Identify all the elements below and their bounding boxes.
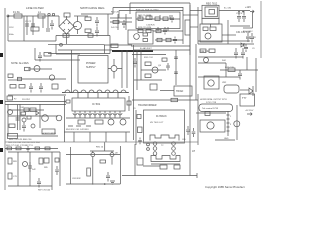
capacitor C18 (37, 178, 41, 188)
wire y104.5 (5, 104, 66, 106)
wire ctl bottom (131, 45, 190, 47)
regulator box U3 (200, 24, 222, 42)
terminal in (7, 15, 9, 17)
terminal circle a (48, 13, 50, 15)
capacitor C20 (50, 20, 54, 30)
transistor Q9 (207, 122, 214, 129)
wire v x247 r (246, 57, 248, 70)
wire v x119 (118, 11, 120, 19)
wire y140 rl (215, 139, 235, 141)
junction dots top (239, 11, 243, 13)
wire ctl row1 (136, 18, 180, 20)
resistor R12 (156, 29, 161, 32)
wire bus y132 (64, 131, 130, 133)
capacitor C1 (26, 16, 28, 35)
svg-text:SWITCHING REG: SWITCHING REG (80, 6, 105, 10)
wire ctl right v (182, 7, 184, 44)
wire v x127 (126, 50, 128, 88)
regulator lower module (202, 18, 219, 24)
svg-text:T2: T2 (161, 145, 164, 147)
IC U4 box (72, 98, 125, 111)
wire q13 row (141, 69, 166, 71)
block box (200, 120, 225, 132)
capacitor C21 (122, 20, 126, 28)
wire v x120.4 (119, 146, 121, 184)
svg-text:HV T401 LOT: HV T401 LOT (150, 122, 164, 124)
transistor Q8 (56, 115, 62, 121)
wire Q1 emitter (77, 30, 79, 35)
resistor R15 (203, 27, 208, 31)
wire AC bus top (8, 15, 59, 17)
edge mark 2 (0, 100, 3, 104)
capacitor C14 (38, 52, 42, 62)
wire y7.5 (113, 7, 183, 9)
resistor R4 (85, 29, 91, 33)
wire bus y95 (8, 94, 66, 96)
wire bridge top (66, 16, 68, 19)
wire reg gnd (230, 25, 250, 27)
ground sym (110, 181, 115, 184)
pin circle R3 (172, 152, 176, 156)
wire q5 row (28, 68, 52, 70)
wire y164 (151, 163, 180, 165)
svg-text:R83: R83 (13, 161, 18, 163)
capacitor C15 (29, 83, 33, 93)
wire bridge left (58, 16, 60, 27)
transistor Q7 (42, 115, 49, 122)
capacitor C5 (95, 27, 99, 37)
wire y35 r (222, 34, 236, 36)
wire y50 mr (134, 49, 191, 51)
IC top stubs (78, 93, 118, 98)
transistor Q14 (204, 58, 209, 63)
regulator box U2 core (209, 10, 215, 15)
wire q6 (108, 59, 122, 79)
wire v x256 (255, 58, 257, 92)
wire v x137 (136, 50, 138, 90)
resistor R12c (146, 29, 151, 32)
resistor R23 (30, 108, 36, 112)
resistor R32 (174, 165, 180, 169)
wire y110 l (8, 109, 44, 111)
resistor R6 (138, 17, 143, 21)
ic drop c (105, 132, 107, 142)
svg-text:D51 R52: D51 R52 (22, 99, 31, 101)
small box ml (52, 84, 58, 89)
wire ctl row3 (155, 39, 183, 41)
wire v x104.7 (104, 142, 106, 151)
svg-text:R51 R52 C41 C42 R53: R51 R52 C41 C42 R53 (66, 129, 89, 131)
capacitor C22 (133, 58, 137, 68)
small box bm (137, 158, 143, 165)
transistor Q6 (111, 66, 117, 72)
svg-text:R85: R85 (44, 167, 49, 169)
fuse F1 (14, 14, 22, 18)
wire y41 left (8, 40, 24, 42)
cap C1 plates (25, 24, 35, 26)
wire +12V bus (219, 10, 250, 12)
svg-text:Q5: Q5 (158, 65, 162, 67)
wire v x113 (112, 8, 114, 15)
wire mid bus2 (56, 35, 110, 37)
pot VR2 (120, 119, 126, 125)
wire v x141 (140, 50, 142, 80)
wire y136 l (8, 135, 58, 137)
wire v x197 end (196, 173, 198, 178)
svg-text:60Hz: 60Hz (9, 34, 14, 36)
wire y101.5 (5, 101, 66, 103)
svg-text:L1: L1 (38, 11, 41, 14)
capacitor C6 (170, 15, 174, 23)
resistor R2 (31, 27, 39, 31)
capacitor C17 (22, 122, 26, 132)
transformer T2 circle (8, 110, 13, 115)
svg-text:B+ 130: B+ 130 (224, 8, 232, 10)
resistor R29 (100, 160, 106, 163)
capacitor mr extra (166, 63, 170, 70)
diode D2 (241, 43, 244, 47)
transistor Q4 (205, 33, 211, 39)
wire y154.6 (66, 154, 120, 156)
wire Q1 collector (77, 16, 79, 22)
wire y148.5 join (5, 148, 58, 150)
wire node to control (110, 21, 132, 23)
comp in snubber (143, 33, 148, 36)
capacitor C19 (106, 172, 110, 182)
comp left col t1 (137, 115, 141, 119)
comp row a (7, 147, 12, 150)
capacitor C24 (246, 33, 250, 42)
transistor Q5 (34, 66, 40, 72)
wire v x190b (189, 144, 191, 176)
wire mid-left bus y60 (35, 59, 80, 61)
box TTY (240, 94, 255, 106)
comp beside ic (127, 101, 131, 105)
svg-text:IC 501: IC 501 (92, 102, 101, 106)
terminal +12V arrow (250, 10, 254, 13)
resistor R31 (160, 165, 167, 169)
wire ctl stubs (140, 15, 170, 31)
svg-text:C8: C8 (253, 37, 256, 39)
transistor Q18 (22, 118, 26, 122)
wire v x176 (175, 50, 177, 85)
svg-text:C1 C2: C1 C2 (25, 21, 32, 23)
wire ic base (62, 92, 128, 94)
svg-text:D42: D42 (32, 169, 37, 171)
caps right of T1 b (192, 128, 196, 137)
wire v x122 (121, 50, 123, 88)
IC U4 pins (75, 111, 120, 116)
resistor R18 (25, 67, 31, 70)
resistor R3 (85, 17, 91, 21)
resistor R25 (138, 127, 143, 133)
svg-text:TRIAD: TRIAD (176, 90, 183, 93)
wire v x228 (227, 20, 229, 44)
wide box bl (8, 134, 18, 139)
wire v x133 mid (133, 45, 135, 140)
junction ball (60, 43, 63, 46)
svg-text:GND: GND (224, 138, 229, 140)
resistor R33 (113, 21, 119, 24)
wire v x71.5 (71, 50, 73, 93)
svg-text:3: 3 (230, 124, 232, 126)
junction dot (104, 183, 106, 185)
wire y28 right (243, 27, 253, 29)
svg-text:C81 R92: C81 R92 (72, 178, 81, 180)
comp left of ic (66, 100, 70, 103)
transformer box T1 (144, 110, 185, 143)
resistor R36 (209, 49, 215, 53)
comp on y100 (171, 98, 178, 101)
wire bridge right (74, 26, 77, 28)
resistor R40 (157, 38, 162, 41)
wire v x226 r (225, 63, 227, 77)
ic drop b (89, 132, 91, 142)
comp bl6 (55, 158, 59, 162)
wire v x237 (236, 105, 238, 140)
wire bus y79 (17, 78, 66, 80)
comp lb1 (27, 116, 31, 119)
wire AC bus top right (74, 15, 88, 17)
small box r2 (205, 112, 210, 116)
wire v x18 (17, 152, 19, 186)
wire right bus y57 (198, 56, 243, 58)
transistor Q13 (152, 67, 158, 73)
wire q drops (93, 157, 112, 185)
svg-text:HORIZONTAL OUTPUT R731: HORIZONTAL OUTPUT R731 (200, 98, 228, 101)
comp row e (45, 147, 50, 150)
resistor R12b (138, 29, 143, 32)
caps right of T1 (186, 126, 190, 135)
wire y44 r (198, 43, 254, 45)
svg-text:R42 C33: R42 C33 (225, 67, 234, 69)
resistor R20 (19, 85, 25, 89)
wire y90 r (240, 89, 249, 91)
border frame right (260, 1, 262, 58)
wire y142 bus (5, 141, 198, 143)
wire vertical node (107, 14, 109, 36)
capacitor C23 (28, 162, 32, 172)
resistor R9 (163, 17, 168, 21)
capacitor C16 (39, 83, 43, 93)
wire v x190 long (189, 3, 191, 144)
regulator box U2 inner (205, 7, 217, 17)
triad box (174, 86, 192, 96)
wire top border (130, 2, 190, 4)
wire v x135 bm (134, 144, 136, 176)
capacitor C10 (250, 33, 254, 43)
edge mark 3 (0, 148, 3, 152)
wire y77 r (198, 76, 240, 78)
wire y53.5 (48, 53, 110, 55)
wire v x129 (128, 96, 130, 111)
ic drop d (125, 132, 127, 142)
wire v x70 (70, 147, 72, 184)
wire to reg2 (190, 26, 198, 28)
wire y44.7 (48, 44, 105, 46)
wire y80 mr (134, 79, 162, 81)
transistor Q15 (208, 80, 214, 86)
capacitor C4 (95, 17, 99, 27)
capacitor C13 (238, 70, 242, 80)
wire y10.5 (119, 10, 183, 12)
wire y100 mid (132, 99, 198, 101)
control block box (136, 12, 180, 29)
wire v x24 (23, 16, 25, 41)
wire reg in (190, 10, 202, 12)
capacitor C12 (241, 48, 245, 59)
svg-text:R87 C75 D44: R87 C75 D44 (38, 190, 51, 192)
wire v x17.5 (17, 105, 19, 131)
small box mr (150, 84, 157, 90)
svg-text:Tek control 5733: Tek control 5733 (202, 107, 219, 110)
wire v x126 (125, 14, 127, 30)
wire y54 ml (56, 53, 80, 55)
comps top right low (200, 49, 206, 53)
wire v x118 (117, 14, 119, 30)
transistor Q10 (234, 121, 240, 127)
wire y63 r (198, 62, 226, 64)
wire bridge bottom (66, 34, 68, 44)
capacitor C28 (138, 138, 142, 145)
wire v x198 low (197, 94, 199, 145)
svg-text:R31 C24: R31 C24 (144, 57, 153, 59)
resistor R28 (8, 173, 12, 179)
wire v x190 (189, 5, 191, 55)
terminal +B arrow (247, 113, 252, 116)
terminal circle b (52, 13, 54, 15)
edge mark 1 (0, 53, 3, 57)
snubber box (128, 30, 153, 44)
svg-text:FLYBACK: FLYBACK (156, 115, 167, 118)
wire y166 bm (143, 165, 160, 167)
resistor R39 (24, 108, 29, 112)
resistor R38 (8, 74, 13, 78)
wire y90.5 mr (160, 90, 174, 92)
wire v x30 bl (29, 152, 31, 186)
bridge rectifier D1 (59, 19, 74, 34)
terminal marks x228 (227, 115, 230, 131)
svg-text:C16 R25: C16 R25 (146, 25, 155, 27)
wire y186 left (8, 185, 52, 187)
wire lower return (24, 40, 56, 42)
capacitor C27 (55, 166, 59, 175)
wire v x35 (34, 48, 36, 60)
wire v right drop (252, 12, 254, 28)
pin circle S2 (147, 148, 150, 151)
comp mr extra (162, 58, 167, 61)
svg-text:1: 1 (230, 116, 232, 118)
pin circle R2 (172, 147, 176, 151)
svg-text:B1-2 SRC: B1-2 SRC (243, 31, 253, 33)
wire v x198 (197, 7, 199, 44)
wire y151 (90, 151, 114, 153)
transistor Q11 (91, 153, 95, 157)
svg-text:R44: R44 (222, 60, 227, 62)
capacitor C3 (43, 16, 50, 31)
transistor Q17 (49, 75, 54, 80)
svg-text:R18 C11 R19 C12 R20: R18 C11 R19 C12 R20 (136, 10, 159, 12)
capacitor C2 (32, 16, 34, 35)
wire y176 (122, 175, 197, 177)
rounded box r (224, 85, 239, 93)
capacitor C7 (163, 27, 167, 35)
regulator box U2 (202, 5, 219, 18)
resistor R21 (78, 120, 85, 124)
wire y41 right (198, 40, 250, 42)
comp row b (16, 147, 21, 150)
capacitor C25 (244, 44, 248, 52)
svg-text:AT: AT (192, 150, 195, 153)
pot VR1 (108, 119, 114, 125)
wire y50 stub (58, 49, 112, 51)
label LINE box (7, 96, 13, 100)
transistor Q2 (134, 34, 140, 40)
resistor R35 (145, 74, 151, 78)
IC pin bumps (73, 113, 122, 115)
wire reg drop (210, 24, 212, 27)
resistor R17 (228, 68, 235, 72)
wire v x56 join (55, 36, 57, 42)
wire y113 r (196, 112, 226, 114)
comp in snubber2 (143, 39, 148, 42)
resistor R43 (88, 34, 93, 37)
wire v x52 (51, 152, 53, 190)
svg-text:C73: C73 (13, 176, 18, 178)
wire y45 (104, 44, 132, 46)
comp row c (26, 146, 29, 152)
transistor Q1 (74, 22, 82, 30)
resistor R8 (155, 17, 160, 21)
pin circle S1 (147, 143, 150, 146)
svg-text:VR2: VR2 (222, 82, 227, 84)
pin circle L1 (153, 142, 157, 146)
text box l (42, 129, 55, 134)
transistor Q19 (31, 124, 35, 128)
svg-text:SUPPLY: SUPPLY (86, 66, 96, 69)
svg-text:Copyright 1985 Sams Photofact: Copyright 1985 Sams Photofact (205, 185, 245, 189)
wire y184 (66, 183, 120, 185)
wire v x20 l (19, 104, 21, 130)
svg-text:B+ ADJUST: B+ ADJUST (140, 47, 152, 50)
wire y152 (8, 151, 60, 153)
wire v x8 l (7, 104, 9, 136)
svg-text:POWER: POWER (86, 62, 96, 65)
wire v x64.5 (64, 96, 66, 142)
resistor R7 (146, 16, 152, 20)
diode D3 (23, 162, 28, 167)
IC U1 bumps top (62, 90, 129, 93)
wire v x136 (135, 110, 137, 145)
capacitor C9 (242, 11, 246, 22)
svg-text:Q8: Q8 (115, 153, 119, 155)
pin circle R1 (172, 142, 176, 146)
capacitor C11 (234, 48, 238, 59)
pin drops (75, 116, 120, 118)
resistor R1 (64, 13, 70, 17)
wire v x60 bl (59, 152, 61, 186)
resistor R22 (95, 120, 103, 124)
transformer windings (150, 135, 179, 141)
svg-text:R91 10: R91 10 (96, 147, 104, 149)
resistor R5 (111, 44, 118, 48)
resistor R24 (9, 124, 15, 128)
svg-text:R11 C9: R11 C9 (111, 12, 119, 14)
comp bl (44, 158, 49, 163)
block box r (204, 76, 219, 89)
wire v x104 (104, 45, 106, 54)
svg-text:TTY: TTY (242, 97, 247, 100)
